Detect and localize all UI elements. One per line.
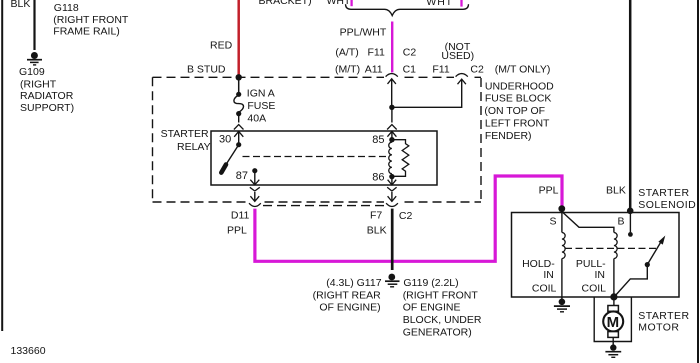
node junction: [389, 105, 394, 110]
svg-text:(4.3L) G117: (4.3L) G117: [326, 277, 381, 289]
svg-text:D11: D11: [231, 209, 250, 221]
svg-text:86: 86: [372, 171, 384, 183]
svg-text:G118: G118: [54, 2, 79, 14]
node S: [558, 205, 565, 212]
svg-text:(M/T ONLY): (M/T ONLY): [495, 64, 551, 76]
pin 87 node and arrow: [250, 168, 259, 185]
pull-in coil: [614, 233, 617, 259]
ground hold-in: [554, 299, 570, 312]
svg-text:BLK: BLK: [367, 224, 387, 236]
connector hat F11/C2: [456, 74, 468, 77]
svg-text:C2: C2: [470, 64, 484, 76]
label STARTER SOLENOID: [638, 187, 696, 211]
label HOLD-IN COIL: [522, 258, 556, 294]
svg-text:40A: 40A: [247, 113, 266, 125]
ground G109: [27, 52, 42, 65]
chevron below box at 86: [387, 187, 396, 191]
solenoid linkage dashed: [565, 247, 659, 249]
arrow into F7: [388, 192, 397, 201]
wire stub WHT magenta right: [460, 0, 462, 7]
relay linkage dashed: [243, 156, 388, 158]
wire S to pull-in coil: [562, 212, 614, 233]
node pull-in/motor: [610, 293, 617, 300]
label G119: [403, 277, 482, 339]
solenoid switch blade: [645, 236, 666, 268]
svg-text:MOTOR: MOTOR: [638, 322, 679, 334]
pin 85 arrow: [387, 131, 396, 139]
label STARTER MOTOR: [638, 310, 689, 334]
svg-text:IN: IN: [595, 269, 606, 281]
svg-text:BLOCK, UNDER: BLOCK, UNDER: [403, 314, 482, 326]
svg-text:IN: IN: [543, 269, 554, 281]
svg-text:(ON TOP OF: (ON TOP OF: [484, 105, 545, 117]
pin 86 arrow down: [388, 177, 397, 185]
svg-text:BLK: BLK: [11, 0, 31, 10]
svg-text:B: B: [618, 216, 625, 228]
ground G117/G119: [385, 274, 400, 287]
svg-text:COIL: COIL: [582, 282, 607, 294]
svg-text:(RIGHT: (RIGHT: [20, 78, 57, 90]
svg-text:RELAY: RELAY: [177, 141, 211, 153]
starter solenoid box: [512, 213, 680, 298]
svg-text:USED): USED): [441, 50, 474, 62]
svg-text:LEFT FRONT: LEFT FRONT: [485, 117, 550, 129]
label STARTER RELAY: [161, 128, 211, 153]
wire S to hold-in coil: [561, 210, 563, 233]
svg-text:PPL/WHT: PPL/WHT: [340, 26, 387, 38]
underhood fuse block dashed box: [153, 77, 482, 202]
wire B STUD to fuse: [238, 77, 240, 94]
svg-text:F11: F11: [368, 47, 385, 59]
label (A/T) F11 C2: [335, 47, 416, 59]
svg-text:F7: F7: [370, 209, 382, 221]
svg-text:OF ENGINE): OF ENGINE): [319, 302, 380, 314]
connector cup D11: [249, 203, 261, 206]
svg-text:G109: G109: [19, 66, 45, 78]
wire BLK solenoid feed: [629, 0, 632, 208]
left page border: [1, 0, 3, 331]
ground motor: [605, 344, 621, 357]
wire blade to pull-in node: [615, 265, 648, 297]
svg-text:C1: C1: [403, 64, 417, 76]
relay coil: [389, 142, 392, 174]
wire PPL/WHT: [340, 22, 393, 73]
node 85: [389, 137, 394, 142]
wire branch to F11/C2: [392, 79, 466, 107]
wire pull-in coil to node: [613, 259, 615, 297]
svg-text:RADIATOR: RADIATOR: [20, 90, 74, 102]
svg-text:S: S: [550, 216, 557, 228]
svg-text:(M/T): (M/T): [335, 64, 360, 76]
label G117: [313, 277, 382, 314]
svg-text:30: 30: [219, 133, 231, 145]
svg-text:IGN A: IGN A: [247, 87, 275, 99]
wire B to contact: [629, 213, 631, 233]
svg-text:OF ENGINE: OF ENGINE: [403, 302, 461, 314]
svg-text:85: 85: [372, 134, 384, 146]
wire junction down to relay: [391, 107, 393, 122]
svg-text:STARTER: STARTER: [161, 128, 209, 140]
svg-text:FENDER): FENDER): [485, 130, 532, 142]
label UNDERHOOD FUSE BLOCK: [484, 80, 554, 141]
svg-text:C2: C2: [403, 47, 417, 59]
pin 30 arrow: [234, 131, 243, 144]
starter motor box: [594, 297, 631, 341]
node B STUD: [236, 74, 242, 80]
svg-text:STARTER: STARTER: [638, 187, 689, 199]
svg-text:SOLENOID: SOLENOID: [638, 199, 696, 211]
svg-text:A11: A11: [365, 64, 383, 76]
svg-text:F11: F11: [432, 64, 449, 76]
chevron below box at 87: [250, 187, 260, 191]
svg-text:SUPPORT): SUPPORT): [20, 102, 74, 114]
node B: [627, 208, 634, 215]
svg-text:M: M: [607, 314, 620, 331]
wire PPL magenta path: [255, 176, 562, 261]
motor M: [603, 297, 623, 345]
starter relay box: [211, 131, 437, 185]
svg-text:WHT: WHT: [426, 0, 453, 8]
connector C2 body dashed row: [263, 205, 385, 207]
svg-text:(A/T): (A/T): [335, 47, 358, 59]
label F7 C2: [370, 209, 412, 222]
wire RED: [210, 0, 239, 77]
brace splice: [346, 4, 469, 15]
resistor R parallel: [392, 140, 409, 177]
contact node: [628, 232, 633, 237]
svg-text:FUSE: FUSE: [247, 100, 275, 112]
wire fuse to relay: [238, 114, 240, 123]
label (NOT USED): [441, 41, 474, 62]
svg-text:UNDERHOOD: UNDERHOOD: [485, 80, 554, 92]
svg-text:BLK: BLK: [606, 185, 626, 197]
wire BLK to G109: [11, 0, 35, 50]
svg-text:B STUD: B STUD: [187, 64, 226, 76]
label (M/T) A11 C1 F11 C2 (M/T ONLY): [335, 64, 550, 76]
svg-text:87: 87: [236, 170, 248, 182]
node 86: [389, 174, 394, 179]
svg-text:(RIGHT FRONT: (RIGHT FRONT: [403, 289, 479, 301]
wire BLK to ground: [391, 209, 394, 270]
white gaps at connector crossings: [247, 76, 470, 204]
svg-text:133660: 133660: [11, 345, 46, 357]
svg-text:(RIGHT REAR: (RIGHT REAR: [313, 289, 381, 301]
connector chevron at relay pin 30: [234, 125, 244, 130]
svg-text:G119 (2.2L): G119 (2.2L): [403, 277, 458, 289]
svg-text:FUSE BLOCK: FUSE BLOCK: [485, 92, 552, 104]
connector chevron at relay pin 85: [387, 125, 397, 130]
svg-text:PPL: PPL: [539, 185, 559, 197]
wire stub WHT magenta left: [350, 0, 352, 6]
label IGN A FUSE 40A: [247, 87, 276, 124]
svg-text:RED: RED: [210, 40, 233, 52]
right page border: [697, 0, 699, 363]
label G118: [53, 2, 129, 37]
connector cup F7: [386, 203, 398, 206]
fuse IGN A 40A: [234, 92, 244, 116]
svg-text:STARTER: STARTER: [638, 310, 689, 322]
svg-text:COIL: COIL: [532, 282, 557, 294]
wire hold-in coil to ground: [561, 259, 563, 302]
svg-text:WHT: WHT: [327, 0, 351, 7]
label G109: [19, 66, 74, 114]
svg-text:BRACKET): BRACKET): [259, 0, 312, 7]
svg-text:FRAME RAIL): FRAME RAIL): [53, 25, 120, 37]
connector hat A11/C1: [386, 74, 398, 77]
relay switch: [221, 142, 241, 173]
svg-text:PPL: PPL: [227, 224, 247, 236]
svg-text:(RIGHT FRONT: (RIGHT FRONT: [53, 14, 129, 26]
arrow below A11: [388, 79, 396, 108]
svg-text:C2: C2: [399, 210, 413, 222]
label PULL-IN COIL: [576, 258, 606, 294]
svg-text:GENERATOR): GENERATOR): [403, 327, 472, 339]
arrow into D11: [250, 192, 259, 201]
hold-in coil: [562, 233, 565, 259]
